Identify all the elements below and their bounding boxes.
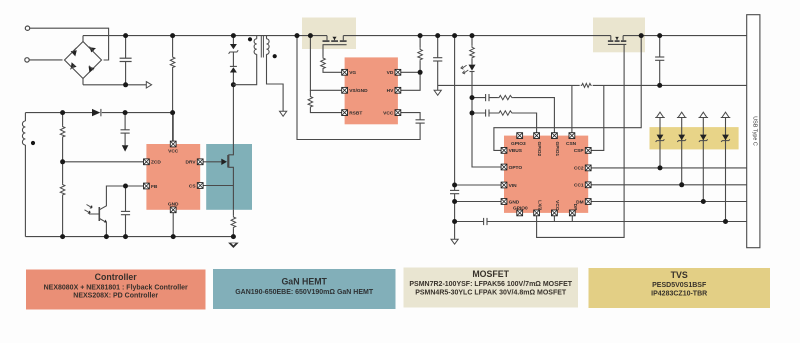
- pin U1 GND: [168, 202, 179, 213]
- highlight box: TVS diodes (yellow): [650, 127, 739, 149]
- pin U2 RSBT: [342, 110, 363, 117]
- svg-text:GND: GND: [509, 199, 520, 205]
- pin U3 CSN: [566, 133, 577, 147]
- ground: PD controller gnd: [451, 239, 458, 244]
- diode D7 optocoupler LED: [461, 65, 476, 74]
- pin U3 VIN: [501, 182, 517, 189]
- wire: CSN riser: [571, 85, 573, 132]
- resistor R9: [498, 95, 514, 99]
- pin U3 CSP: [574, 148, 591, 155]
- svg-text:GAN190-650EBE: 650V190mΩ GaN H: GAN190-650EBE: 650V190mΩ GaN HEMT: [235, 289, 374, 296]
- pin U2 VS/GND: [342, 87, 368, 94]
- diode D5 aux rectifier: [92, 109, 101, 116]
- wire: DP row with cap: [455, 221, 747, 223]
- pin U1 VCC: [168, 141, 179, 154]
- pin U3 GND: [501, 199, 520, 206]
- pin U3 DM: [576, 199, 591, 206]
- wire: AC input top lead: [30, 28, 109, 60]
- node: DC rail junctions (primary): [123, 33, 236, 87]
- wire: AC input bottom lead: [29, 59, 62, 61]
- TVS diode D10 on DM: [699, 112, 709, 201]
- pin U2 HV: [387, 87, 401, 94]
- legend: GaN HEMT box: [213, 269, 396, 309]
- ground: primary ground chevron: [228, 243, 239, 248]
- terminal J1 pin2: [25, 58, 29, 62]
- svg-text:GPIO2: GPIO2: [536, 142, 542, 157]
- clamp TVS Z1 and diode D6: [229, 36, 239, 144]
- pin U3 CC2: [574, 165, 591, 172]
- pin U2 VD: [387, 69, 401, 76]
- TVS diode D9 on CC1: [677, 112, 687, 185]
- ground: output cap: [434, 90, 441, 95]
- node: clamp bottom junction: [231, 82, 236, 87]
- svg-text:CC1: CC1: [574, 183, 584, 189]
- svg-text:CC2: CC2: [574, 166, 584, 172]
- svg-text:VS/GND: VS/GND: [349, 88, 368, 94]
- node: aux row junctions: [60, 110, 175, 115]
- wire: VIN drop from rail: [454, 36, 456, 240]
- svg-text:VCC: VCC: [383, 110, 394, 116]
- node: VIN/GND/DP junctions: [452, 183, 457, 225]
- resistor R4 current sense: [231, 210, 236, 237]
- node: TVS row junctions: [658, 165, 729, 224]
- transistor Q3 load switch MOSFET: [608, 36, 626, 45]
- node: LED branch junctions: [435, 33, 474, 115]
- wire: ZCD sense: [63, 161, 144, 163]
- svg-text:OPTO: OPTO: [509, 165, 523, 171]
- svg-text:VG: VG: [349, 70, 356, 76]
- TVS diode D11 on DP: [721, 112, 731, 221]
- wire: DM row: [591, 201, 747, 203]
- ground: aux cap return (filled arrow): [122, 145, 129, 151]
- ground: secondary gnd at transformer: [280, 111, 287, 116]
- pin U3 GPIO1: [552, 133, 561, 157]
- pin U3 CC1: [574, 182, 591, 189]
- pin U3 LX2: [534, 200, 543, 216]
- wire: DP stub: [571, 216, 573, 222]
- transistor Q2 sync-rect MOSFET: [323, 36, 347, 45]
- wire: primary ground row: [25, 236, 233, 238]
- capacitor C9 DP filter: [484, 218, 487, 225]
- svg-text:VBUS: VBUS: [509, 148, 523, 154]
- svg-text:GPIO1: GPIO1: [554, 142, 560, 157]
- pin U3 VBUS: [501, 148, 523, 155]
- node: U2 area junctions: [295, 33, 423, 75]
- wire: bridge bottom return rail: [83, 79, 147, 85]
- IC U1 flyback controller block: [146, 144, 200, 210]
- wire: VS/GND to rail: [310, 36, 341, 91]
- svg-text:GPIO0: GPIO0: [513, 205, 528, 211]
- svg-text:NEXS208X: PD Controller: NEXS208X: PD Controller: [73, 293, 158, 300]
- resistor R10: [498, 111, 514, 115]
- capacitor C2 aux: [121, 113, 130, 146]
- svg-text:DP: DP: [572, 204, 578, 211]
- wire: VIN row: [455, 184, 502, 186]
- svg-text:HV: HV: [387, 88, 394, 94]
- wire: aux row: [25, 112, 172, 114]
- pin U1 ZCD: [144, 159, 162, 166]
- wire: VCC pin to aux node: [172, 113, 174, 142]
- terminal J1 pin1: [25, 26, 29, 30]
- resistor R2 ZCD upper: [60, 113, 65, 162]
- svg-text:FB: FB: [151, 184, 158, 190]
- legend: Controller box: [26, 270, 206, 310]
- GaN HEMT Q1 block (teal): [206, 144, 252, 210]
- svg-text:VCC: VCC: [168, 148, 179, 154]
- wire: LED cathode to OPTO pin: [472, 72, 501, 168]
- optocoupler output Q4 phototransistor: [85, 186, 147, 237]
- svg-text:VD: VD: [387, 70, 394, 76]
- wire: CC2 row: [591, 167, 747, 169]
- connector J2 USB Type-C: [747, 15, 760, 248]
- pin U1 CS: [189, 183, 203, 190]
- resistor R7 VD: [401, 36, 423, 91]
- capacitor C10 VBUS: [655, 36, 664, 86]
- wire: secondary winding bottom to secondary ground: [267, 58, 284, 112]
- wire: Q3 gate to LX2: [537, 44, 625, 237]
- capacitor C5 output: [433, 36, 442, 91]
- svg-text:GaN HEMT: GaN HEMT: [281, 277, 327, 287]
- node: rail right junctions: [639, 33, 663, 88]
- wire: GPIO1 RC row: [472, 94, 554, 133]
- pin U3 GPIO3: [511, 133, 526, 147]
- pin U2 VCC: [383, 110, 401, 117]
- wire: GND return / current sense row: [438, 84, 747, 86]
- wire: VCC return loop: [297, 36, 420, 140]
- pin U3 DP: [569, 204, 578, 216]
- svg-text:TVS: TVS: [671, 270, 688, 280]
- node: primary ground row junctions: [60, 234, 236, 239]
- capacitor C1 bulk: [120, 36, 132, 85]
- TVS diode D8 on CC2: [655, 112, 665, 168]
- svg-text:ZCD: ZCD: [151, 160, 161, 166]
- IC U2 SR controller block: [345, 57, 398, 124]
- svg-text:VCC: VCC: [554, 200, 560, 211]
- transistor Q1 GaN HEMT symbol: [221, 144, 233, 210]
- capacitor C3 FB filter: [121, 186, 130, 237]
- wire: DC+ rail (primary + secondary VBUS rail): [83, 35, 747, 37]
- highlight box: load-switch MOSFET (beige): [593, 18, 645, 53]
- wire: CC1 row: [591, 184, 747, 186]
- svg-text:PSMN7R2-100YSF: LFPAK56 100V/7: PSMN7R2-100YSF: LFPAK56 100V/7mΩ MOSFET: [409, 281, 572, 288]
- pin U1 DRV: [186, 159, 204, 166]
- svg-text:PSMN4R5-30YLC LFPAK 30V/4.8mΩ: PSMN4R5-30YLC LFPAK 30V/4.8mΩ MOSFET: [415, 290, 567, 297]
- resistor R3 ZCD lower: [60, 162, 65, 237]
- legend: TVS box: [589, 268, 771, 308]
- wire: DRV to GaN gate: [203, 161, 221, 163]
- pin U3 OPTO: [501, 164, 522, 171]
- svg-text:IP4283CZ10-TBR: IP4283CZ10-TBR: [651, 291, 707, 298]
- inductor L1 aux winding: [22, 113, 35, 237]
- pin U2 VG: [342, 69, 357, 76]
- resistor R1 startup: [170, 36, 175, 142]
- node: ZCD tap: [60, 159, 65, 164]
- wire: CS to source sense: [203, 185, 233, 187]
- svg-text:USB Type C: USB Type C: [752, 116, 758, 146]
- transformer T1: [248, 36, 277, 59]
- svg-text:Controller: Controller: [95, 272, 138, 282]
- capacitor C8 VIN: [450, 190, 459, 193]
- wire: primary winding bottom to clamp/drain node: [233, 58, 256, 85]
- pin U3 GPIO0: [513, 205, 528, 216]
- bridge rectifier BR1: [65, 42, 102, 79]
- highlight box: SR MOSFET (beige): [302, 18, 356, 50]
- wire: GPIO2 RC row: [472, 109, 537, 132]
- pin U3 VCC: [552, 200, 561, 216]
- svg-text:NEX8080X + NEX81801 : Flyback: NEX8080X + NEX81801 : Flyback Controller: [44, 285, 188, 292]
- node: FB tap: [123, 184, 128, 189]
- svg-text:LX/2: LX/2: [536, 200, 542, 210]
- resistor R5 gate: [321, 57, 326, 70]
- wire: Q2 gate to VG: [323, 45, 342, 73]
- wire: GND pin to ground row: [172, 213, 174, 237]
- legend: MOSFET box: [404, 268, 579, 308]
- svg-text:GPIO3: GPIO3: [511, 141, 526, 147]
- svg-text:MOSFET: MOSFET: [472, 269, 509, 279]
- IC U3 PD controller block: [504, 136, 588, 213]
- svg-text:CSP: CSP: [574, 148, 585, 154]
- wire: VBUS sense route: [494, 36, 641, 151]
- net arrow: primary return (right arrow): [146, 82, 151, 88]
- svg-text:VIN: VIN: [509, 183, 518, 189]
- wire: bridge to DC+ rail stub: [82, 36, 84, 42]
- svg-text:PESD5V0S1BSF: PESD5V0S1BSF: [652, 282, 707, 289]
- svg-text:DRV: DRV: [186, 160, 197, 166]
- wire: CSP riser: [591, 85, 604, 150]
- resistor R11 current sense shunt: [580, 83, 593, 89]
- capacitor C4 U2 VCC: [416, 120, 425, 123]
- wire: GND row to PD: [455, 201, 502, 203]
- svg-text:CSN: CSN: [566, 141, 577, 147]
- resistor R8 opto LED series: [470, 36, 475, 65]
- pin U1 FB: [144, 183, 158, 190]
- svg-text:CS: CS: [189, 183, 196, 189]
- wire: VCC stub to DP row: [553, 216, 555, 222]
- resistor R6 RSBT: [308, 90, 342, 112]
- svg-text:GND: GND: [168, 202, 179, 208]
- svg-text:RSBT: RSBT: [349, 110, 362, 116]
- pin U3 GPIO2: [534, 133, 543, 157]
